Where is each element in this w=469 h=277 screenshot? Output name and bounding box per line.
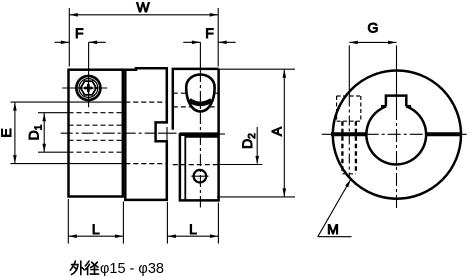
disc hidden line bottom <box>125 163 167 165</box>
left hub outline <box>69 70 123 197</box>
dimension G line <box>349 41 396 43</box>
dimension L right line <box>167 235 218 237</box>
dimension A line <box>283 69 285 197</box>
dimension W line <box>69 14 218 16</box>
dimension L left line <box>68 235 123 237</box>
inner hidden line lower <box>69 139 123 141</box>
tap hole hidden lines <box>341 121 343 174</box>
dimension D1 extension bottom <box>38 151 69 153</box>
svg-text:L: L <box>189 221 197 237</box>
bore hidden line D1 top <box>69 112 123 114</box>
dimension L left extensions <box>67 199 69 244</box>
svg-text:A: A <box>269 126 285 136</box>
svg-text:φ15 - φ38: φ15 - φ38 <box>100 261 164 277</box>
right hub hidden line 1 <box>173 92 186 94</box>
kanji GAI <box>70 261 75 270</box>
center disc outline <box>125 68 167 200</box>
right hub right edge and clamp block outline <box>180 69 219 201</box>
svg-text:M: M <box>327 221 339 237</box>
dimension F right line <box>183 41 200 43</box>
dimension A extension bottom <box>217 196 295 198</box>
front view bore circle with keyway opening <box>366 106 426 164</box>
slit bar right <box>426 132 461 136</box>
bore hidden line D1 bottom <box>69 151 123 153</box>
dimension W extension left <box>68 8 70 67</box>
dimension D1 line <box>43 113 45 153</box>
dimension W extension right <box>217 8 219 67</box>
dimension E line <box>14 102 16 164</box>
dimension L right extensions <box>166 202 168 244</box>
teardrop screw hole on right hub <box>186 75 214 112</box>
dimension D2 arrow <box>256 127 258 164</box>
svg-text:F: F <box>205 25 214 41</box>
screw centerline horizontal <box>62 87 107 89</box>
right hub hidden line 2 <box>173 106 192 108</box>
dimension D2 extension <box>220 164 263 166</box>
screw centerline vertical (left screw, F extension) <box>88 42 90 107</box>
kanji KEI <box>85 261 89 266</box>
bottom caption: gaikei (outer dia) glyphs drawn as paths <box>70 261 98 275</box>
slit line bottom in left hub + E bottom extension <box>11 163 123 165</box>
svg-text:W: W <box>136 0 150 15</box>
slit line top in left hub + E top extension <box>11 101 123 103</box>
hex socket screw head on left hub <box>75 75 102 102</box>
center cross tick at disc interface <box>166 127 168 142</box>
right hub bore hidden line bottom <box>173 164 219 166</box>
svg-text:E: E <box>0 128 14 137</box>
right hub upper outline <box>173 69 219 130</box>
slit bar on right hub <box>180 132 219 136</box>
dimension F left line <box>55 41 70 43</box>
counterbore hidden rectangle <box>336 96 338 121</box>
inner hidden line upper <box>69 124 123 126</box>
dimension A extension top <box>217 68 295 70</box>
keyway nub right <box>406 105 411 108</box>
svg-text:F: F <box>75 25 84 41</box>
svg-text:L: L <box>92 221 100 237</box>
front view horizontal centerline <box>322 133 469 135</box>
disc hidden line top <box>125 101 167 103</box>
front view vertical centerline <box>396 45 398 107</box>
keyway nub left <box>381 105 386 108</box>
svg-text:G: G <box>368 20 379 36</box>
leader line M <box>318 179 351 237</box>
front view outer circle <box>333 71 461 199</box>
axis centerline <box>61 132 156 134</box>
right screw axis centerline <box>199 42 201 70</box>
keyway <box>386 96 406 107</box>
screw head crescent inside teardrop <box>189 100 211 104</box>
clamp screw hole circle in block <box>194 170 207 183</box>
clamp block inner edge <box>185 137 218 201</box>
dimension D1 extension top <box>38 112 69 114</box>
slit bar left <box>331 132 367 136</box>
screw axis centerline front view / G extension <box>348 45 350 96</box>
clamp screw hole horizontal tick <box>191 175 208 177</box>
